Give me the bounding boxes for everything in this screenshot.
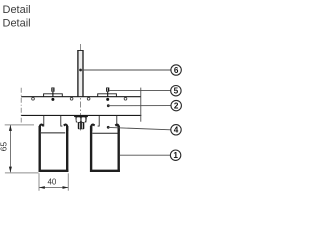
- carrier tab: [42, 115, 44, 126]
- dimension 40 extension right: [67, 173, 69, 190]
- left screw 5: [51, 88, 54, 101]
- dimension 65 extension bottom: [5, 172, 39, 174]
- carrier tab: [61, 115, 63, 126]
- dimension 40 line: [39, 187, 68, 189]
- threaded rod 6 body: [77, 50, 83, 96]
- leader to 4: [107, 126, 171, 130]
- leader to 6: [79, 69, 171, 72]
- leader to 2: [107, 104, 171, 107]
- dimension 40 extension left: [38, 173, 40, 190]
- svg-text:Detail: Detail: [3, 4, 31, 16]
- left axis dash-dot: [20, 88, 22, 123]
- svg-text:65: 65: [0, 142, 8, 152]
- svg-text:40: 40: [47, 178, 56, 187]
- dimension 65 extension top: [5, 124, 34, 126]
- dimension 65 arrow down: [9, 167, 12, 173]
- svg-text:6: 6: [174, 66, 179, 75]
- callout circle 5: [171, 86, 181, 96]
- hole in carrier: [70, 97, 73, 100]
- right cut boundary: [140, 88, 142, 122]
- callout circle 4: [171, 125, 181, 135]
- right screw 5: [106, 88, 109, 101]
- carrier bottom flange line: [21, 114, 141, 116]
- dimension 65 line: [9, 125, 11, 172]
- svg-text:5: 5: [174, 87, 179, 96]
- centerline of hanger rod: [80, 44, 82, 131]
- svg-text:Detail: Detail: [3, 17, 31, 29]
- callout circle 1: [170, 150, 180, 160]
- dimension 40 arrow right: [63, 186, 69, 189]
- callout circle 2: [171, 100, 181, 110]
- carrier top flange line: [21, 96, 141, 98]
- carrier tab: [98, 115, 100, 126]
- hanger nut assembly under rod: [74, 115, 88, 129]
- leader to 5: [109, 89, 170, 91]
- hole in carrier: [32, 97, 35, 100]
- dimension 40 arrow left: [39, 186, 45, 189]
- svg-text:2: 2: [174, 101, 179, 110]
- hole in carrier: [124, 97, 127, 100]
- hole in carrier: [87, 97, 90, 100]
- dimension 65 arrow up: [9, 125, 12, 131]
- leader to 1: [120, 154, 170, 156]
- callout circle 6: [171, 65, 181, 75]
- left clip plate: [44, 94, 63, 97]
- svg-text:1: 1: [173, 151, 178, 160]
- carrier tab: [117, 115, 119, 126]
- svg-text:4: 4: [174, 126, 179, 135]
- right clip plate: [98, 94, 117, 97]
- right baffle box 1: [90, 125, 120, 172]
- left baffle box 1: [39, 125, 69, 172]
